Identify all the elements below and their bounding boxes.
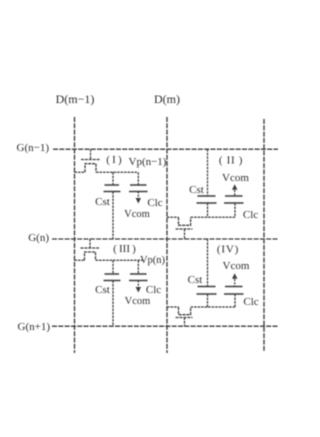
svg-text:Vp(n−1): Vp(n−1): [129, 156, 167, 168]
svg-text:G(n−1): G(n−1): [17, 142, 50, 154]
wire Cst1 to G(n): [112, 192, 114, 240]
gate line G(n): [52, 238, 278, 240]
capacitor Cst3: [104, 274, 121, 281]
svg-text:D(m−1): D(m−1): [56, 92, 95, 106]
transistor T2 channel: [179, 217, 191, 225]
transistor T3 gate bar: [81, 247, 100, 249]
svg-text:Cst: Cst: [95, 196, 110, 208]
svg-text:(IV): (IV): [217, 244, 239, 256]
svg-text:Cst: Cst: [188, 274, 203, 286]
Vcom arrow (cell I): [136, 192, 141, 204]
capacitor Clc3: [129, 274, 148, 281]
wire Cst2 lower lead: [207, 203, 209, 217]
svg-text:Cst: Cst: [95, 284, 110, 296]
wire T1 source: [75, 171, 86, 173]
wire T4 source: [167, 306, 179, 308]
wire T4 drain to pixel node: [191, 306, 235, 308]
svg-text:Vp(n): Vp(n): [140, 255, 166, 266]
transistor T1 channel: [85, 164, 96, 173]
svg-text:Vcom: Vcom: [124, 209, 150, 220]
wire Cst4 lower lead: [207, 294, 209, 307]
wire Clc4 lead: [234, 294, 236, 307]
transistor T2 gate bar: [176, 228, 193, 230]
wire T3 source: [75, 259, 85, 261]
wire Cst1 upper lead: [112, 172, 114, 185]
svg-text:( II ): ( II ): [219, 155, 243, 167]
svg-text:Vcom: Vcom: [222, 172, 249, 184]
data line D(m+1): [263, 119, 265, 351]
Vcom arrow (cell III): [136, 281, 141, 293]
svg-text:( I ): ( I ): [106, 154, 122, 166]
transistor T3 channel: [85, 252, 96, 260]
svg-text:Cst: Cst: [189, 184, 204, 196]
wire Cst3 to G(n+1): [112, 281, 114, 327]
capacitor Clc4: [224, 287, 244, 295]
transistor T4 channel: [179, 307, 191, 315]
svg-text:Clc: Clc: [243, 296, 258, 308]
data line D(m-1): [74, 117, 76, 353]
capacitor Cst4: [197, 287, 217, 295]
transistor T2 gate stub: [184, 229, 186, 239]
wire Clc1 lead: [137, 172, 139, 185]
wire Clc3 lead: [137, 260, 139, 274]
capacitor Clc1: [129, 185, 148, 192]
svg-text:Vcom: Vcom: [125, 296, 151, 307]
gate line G(n+1): [52, 325, 278, 327]
transistor T1 gate bar: [81, 159, 100, 161]
wire Cst2 to G(n-1): [207, 149, 209, 196]
svg-text:Vcom: Vcom: [223, 260, 250, 272]
Vcom arrow (cell IV): [232, 273, 237, 286]
wire T1 drain to pixel node Vp(n-1): [96, 171, 137, 173]
wire T2 drain to pixel node: [191, 216, 235, 218]
svg-text:G(n+1): G(n+1): [18, 321, 51, 333]
transistor T4 gate stub: [184, 318, 186, 327]
wire Cst3 upper lead: [112, 260, 114, 274]
svg-text:D(m): D(m): [154, 92, 180, 106]
capacitor Clc2: [224, 196, 244, 203]
capacitor Cst2: [197, 196, 217, 203]
svg-text:Clc: Clc: [146, 284, 161, 296]
wire T3 drain to pixel node Vp(n): [96, 259, 144, 261]
Vcom arrow (cell II): [232, 184, 237, 196]
transistor T3 gate stub: [89, 239, 91, 248]
svg-text:( III ): ( III ): [113, 243, 136, 255]
wire T2 source: [167, 216, 179, 218]
transistor T4 gate bar: [176, 317, 193, 319]
transistor T1 gate stub: [90, 149, 92, 159]
wire Clc2 lead: [234, 203, 236, 217]
gate line G(n-1): [53, 148, 278, 150]
svg-text:Clc: Clc: [243, 209, 258, 221]
capacitor Cst1: [104, 185, 121, 192]
svg-text:Clc: Clc: [147, 197, 162, 209]
svg-text:G(n): G(n): [28, 232, 49, 244]
data line D(m): [166, 117, 168, 353]
wire Cst4 to G(n): [207, 239, 209, 287]
